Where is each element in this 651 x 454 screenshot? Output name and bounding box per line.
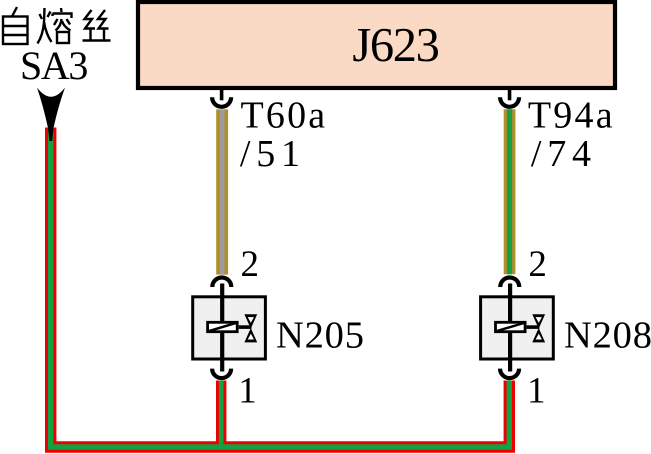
N205 body box bbox=[193, 297, 266, 359]
solenoid valve N205 bbox=[193, 284, 266, 372]
ECU engine control unit J623 box bbox=[138, 2, 615, 88]
svg-text:T60a: T60a bbox=[241, 95, 328, 137]
J623 pin stub T94a/74 bbox=[508, 86, 512, 100]
svg-text:2: 2 bbox=[528, 244, 547, 285]
wire: J623 T60a/51 to N205 pin 2 (gold/grey) bbox=[216, 109, 228, 274]
fuse arrow pointer bbox=[37, 88, 65, 142]
N208 valve hourglass bbox=[532, 314, 545, 328]
svg-text:2: 2 bbox=[241, 244, 260, 285]
N208 connector cup pin 1 bbox=[500, 369, 519, 379]
N208 connector arch pin 2 bbox=[500, 278, 519, 288]
J623 connector cup T94a/74 bbox=[500, 97, 519, 107]
N205 coil bbox=[208, 322, 238, 331]
svg-text:1: 1 bbox=[238, 371, 256, 412]
svg-text:SA3: SA3 bbox=[20, 43, 87, 88]
char 自 bbox=[3, 7, 28, 44]
J623 connector cup T60a/51 bbox=[212, 97, 231, 107]
N208 internal wire line bbox=[508, 284, 512, 372]
svg-text:J623: J623 bbox=[352, 19, 438, 72]
wire stripe green on SA3 feed bbox=[51, 128, 510, 448]
svg-text:N205: N205 bbox=[276, 315, 365, 357]
svg-text:/74: /74 bbox=[531, 133, 597, 175]
wire: SA3 feed red/green (left vertical, bottom run, up to N208 pin 1) bbox=[51, 128, 510, 448]
char 熔 bbox=[38, 8, 72, 44]
N205 valve hourglass bbox=[244, 314, 257, 328]
N208 link coil to valve bbox=[527, 325, 540, 329]
solenoid valve N208 bbox=[481, 284, 554, 372]
N208 coil bbox=[496, 322, 526, 331]
N205 connector arch pin 2 bbox=[212, 278, 231, 288]
svg-text:T94a: T94a bbox=[528, 95, 615, 137]
N205 link coil to valve bbox=[239, 325, 252, 329]
N205 internal wire line (through box incl pin stubs) bbox=[220, 284, 224, 372]
N208 body box bbox=[481, 297, 554, 359]
svg-text:N208: N208 bbox=[564, 315, 651, 357]
J623 pin stub T60a/51 bbox=[220, 86, 224, 100]
svg-text:1: 1 bbox=[527, 371, 546, 412]
svg-text:/51: /51 bbox=[240, 133, 306, 175]
char 丝 bbox=[83, 10, 111, 41]
wire: N205 pin 1 drop to junction (red/green) bbox=[216, 381, 226, 448]
fuse label 自熔丝 (hand-drawn glyphs) bbox=[3, 7, 111, 44]
N205 connector cup pin 1 bbox=[212, 369, 231, 379]
wire: J623 T94a/74 to N208 pin 2 (gold/green) bbox=[504, 109, 516, 274]
